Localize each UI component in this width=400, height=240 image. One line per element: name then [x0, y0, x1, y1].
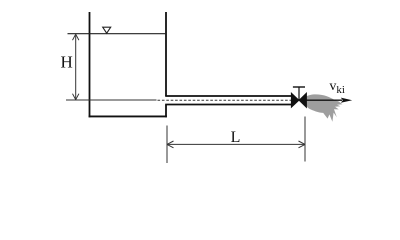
- valve bowtie: [291, 93, 306, 108]
- svg-text:H: H: [61, 53, 73, 72]
- L dimension line: [168, 143, 305, 145]
- pipe top wall: [165, 95, 291, 97]
- L extension line right: [304, 117, 306, 162]
- velocity arrowhead: [341, 98, 352, 103]
- tank left wall: [89, 12, 91, 117]
- H dimension top arrowhead: [73, 34, 79, 40]
- valve T-bar: [293, 86, 305, 88]
- velocity arrow shaft: [302, 99, 342, 101]
- valve stem: [298, 87, 300, 100]
- L dimension left arrowhead: [167, 141, 174, 148]
- tank bottom: [89, 115, 167, 117]
- water surface line: [68, 33, 167, 35]
- H dimension line: [75, 36, 77, 99]
- L dimension right arrowhead: [299, 141, 306, 148]
- water level triangle symbol: [103, 27, 111, 33]
- H dimension bottom arrowhead: [73, 94, 79, 100]
- pipe centerline (dash-dot): [158, 99, 292, 101]
- pipe bottom wall: [165, 104, 291, 106]
- spray jet (gray): [305, 94, 343, 121]
- axis reference line (solid, inside tank): [66, 99, 157, 101]
- svg-text:L: L: [231, 129, 241, 146]
- tank right wall lower: [165, 105, 167, 118]
- tank right wall upper: [165, 12, 167, 96]
- L extension line left: [166, 126, 168, 164]
